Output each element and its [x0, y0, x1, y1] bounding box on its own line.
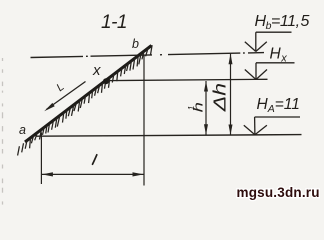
Hb level mark: left leg — [245, 42, 256, 52]
svg-text:HA=11: HA=11 — [257, 96, 300, 115]
slope line a-b — [25, 46, 152, 143]
svg-text:1-1: 1-1 — [101, 12, 127, 33]
svg-text:Δh: Δh — [210, 83, 230, 112]
dimension h1 vertical line — [205, 81, 207, 135]
svg-text:mgsu.3dn.ru: mgsu.3dn.ru — [237, 185, 320, 200]
x-level horizontal line — [109, 79, 268, 80]
svg-text:b: b — [132, 37, 139, 51]
Hx level mark: vertical — [255, 63, 257, 80]
left page-edge scan artifacts — [2, 58, 4, 61]
HA level mark: vertical — [254, 117, 256, 135]
hatching below slope — [18, 146, 20, 155]
bottom a-level horizontal line — [36, 135, 302, 137]
Hb level mark: shelf — [256, 31, 292, 33]
svg-text:Hb=11, 5: Hb=11, 5 — [255, 13, 310, 32]
HA level mark: shelf — [255, 116, 300, 118]
left extension line (below a) — [40, 133, 42, 185]
h1 bottom arrowhead — [204, 124, 208, 135]
Hb level mark: vertical — [255, 32, 257, 51]
Hx level mark: left leg — [245, 70, 256, 80]
Hx level mark: shelf — [256, 62, 295, 64]
HA level mark: right leg — [255, 125, 267, 135]
delta-h bottom arrowhead — [229, 125, 233, 136]
L arrowhead — [44, 103, 55, 111]
right extension line (below b) — [143, 56, 145, 186]
svg-text:1: 1 — [186, 105, 196, 110]
point x dot — [103, 78, 109, 84]
l right arrowhead — [133, 172, 144, 176]
Hb level mark: right leg — [256, 42, 267, 52]
HA level mark: left leg — [244, 125, 255, 135]
l left arrowhead — [42, 172, 53, 176]
dimension delta-h vertical line — [230, 53, 232, 135]
dash-dot axis line at b level — [31, 53, 265, 58]
Hx level mark: right leg — [256, 70, 267, 80]
svg-text:a: a — [19, 123, 26, 137]
svg-text:x: x — [92, 62, 101, 79]
L leader line — [47, 82, 86, 110]
delta-h top arrowhead — [229, 54, 233, 65]
l label (script ell) — [93, 155, 97, 165]
h1 top arrowhead — [204, 81, 208, 92]
dimension line l — [41, 173, 144, 175]
